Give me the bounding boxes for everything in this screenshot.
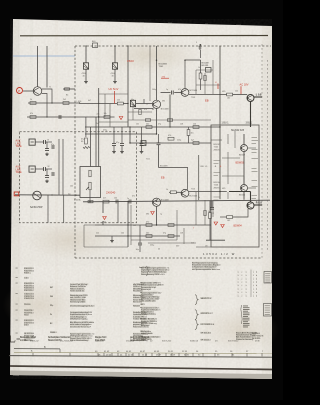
svg-text:1k5: 1k5 [117,100,120,102]
svg-text:L1 04+: L1 04+ [20,339,28,342]
svg-text:2k2: 2k2 [63,99,66,101]
legend col2 descriptions [70,283,88,285]
svg-text:Netzspannung 220V ±10%: Netzspannung 220V ±10% [141,273,165,276]
svg-text:2X0040: 2X0040 [106,190,116,194]
input jack lower [29,166,35,172]
ground C1 [85,80,87,82]
legend col3 descriptions [133,283,144,285]
bus junctions and parts [51,194,52,195]
svg-text:10k: 10k [136,124,139,126]
fold dark line [10,366,272,370]
svg-text:22 23: 22 23 [128,354,134,356]
legend bottom rows [20,336,35,338]
wire y117 mid [87,116,115,118]
pot element upper [89,170,91,177]
svg-text:+: + [215,165,217,169]
svg-text:Printed in Germany: Printed in Germany [236,338,253,341]
paper grain noise [10,19,272,379]
main signal bus wire [83,200,270,202]
svg-text:SP 101-104: SP 101-104 [201,333,212,335]
output box right text rows [252,136,258,139]
input box long verticals [58,139,60,195]
sheet top rule line [20,35,268,37]
svg-text:+: + [220,165,222,169]
emitter resistor lower [227,216,233,219]
svg-text:BC556B: BC556B [189,90,197,92]
plus minus measurement grid [237,271,240,273]
feedback resistor 4 [193,142,199,145]
feedback resistor 4k7 [146,126,152,129]
input box mid verticals [90,127,92,167]
svg-text:SP 111-114: SP 111-114 [201,340,212,342]
ground C2 [114,80,116,82]
svg-text:44 45: 44 45 [126,351,132,353]
upper output device T small [241,145,248,152]
svg-text:1512/04: 1512/04 [126,341,135,343]
record player input symbol P [17,88,23,94]
elbow to lower pre [159,168,188,190]
lower resistors [146,224,152,227]
svg-text:T101 B: T101 B [24,304,31,306]
svg-text:keramische Kond. in pF: keramische Kond. in pF [70,326,92,328]
svg-text:03 B: 03 B [255,341,260,343]
svg-text:DIN-Buchse 5-polig: DIN-Buchse 5-polig [70,318,87,320]
svg-text:Netzteil: Netzteil [133,305,140,308]
pot wiper inside [89,182,91,190]
mains connector symbol [199,44,201,50]
input wire to T102 [144,103,152,105]
svg-text:41 42: 41 42 [104,351,110,353]
below bus verticals [47,195,49,223]
svg-text:BD610: BD610 [239,195,246,197]
svg-text:am Spannungswähler beachten: am Spannungswähler beachten [192,268,220,271]
right edge connector box upper [264,272,272,284]
driver transistor T102 [152,100,160,108]
svg-text:BDW94: BDW94 [234,225,243,228]
resistor x188 upper mid [187,130,190,136]
svg-text:220p: 220p [177,140,181,142]
blue line to input [13,55,75,57]
svg-text:100: 100 [114,198,117,200]
svg-text:1k2: 1k2 [133,225,136,227]
lower output device T small [241,185,248,192]
legend margin ticks right col [140,266,142,269]
svg-text:BC546B: BC546B [160,165,168,167]
svg-text:BD609: BD609 [239,155,246,157]
feedback resistor 2 [193,126,199,129]
svg-text:1k: 1k [30,99,32,101]
svg-text:UC 5mV: UC 5mV [109,87,119,91]
red connector left end [14,192,19,196]
zigzag trim resistor [83,147,90,149]
svg-text:5017/1512: 5017/1512 [228,341,239,343]
svg-text:T103: T103 [191,97,195,99]
mid-left extra wires [99,104,128,128]
output box internal wires [211,131,256,199]
output box internal vertical wire [243,152,245,185]
legend col1 designator list [24,267,32,269]
svg-text:4µ7: 4µ7 [191,140,194,142]
svg-text:47n: 47n [51,144,54,146]
lower feedback wires [95,224,211,226]
svg-text:1k0: 1k0 [50,296,53,298]
input section dashed enclosure [20,132,137,223]
resistor upper mid [63,102,69,105]
lower cap 10u [139,225,141,243]
svg-text:4k7: 4k7 [88,100,91,102]
svg-text:T111: T111 [146,159,150,161]
svg-text:2N2955: 2N2955 [214,187,222,189]
legend brace col1 right [146,266,149,276]
svg-text:1k8: 1k8 [180,232,183,234]
svg-text:1N4001: 1N4001 [50,332,57,334]
extra junction dots [156,60,157,61]
caps cluster mid3 [141,127,143,143]
legend bottom right block [236,332,256,334]
svg-text:a: a [256,295,257,297]
red wire elbow [114,91,116,104]
svg-text:50 51: 50 51 [168,351,174,353]
svg-text:2x: 2x [50,314,52,316]
svg-text:4n7: 4n7 [103,198,106,200]
pin list text stack [243,305,248,308]
svg-text:48 49: 48 49 [154,351,160,353]
T1 wires [23,90,33,92]
svg-text:SU2042 K25: SU2042 K25 [231,130,245,132]
resistor v lower right [209,213,212,219]
svg-text:Sicherung 0,8A tr.: Sicherung 0,8A tr. [70,300,86,303]
resistor 1k5 [117,102,123,105]
bracket group exit [195,310,198,320]
svg-text:B4: B4 [66,95,68,97]
partition vertical wire x198 [198,155,200,200]
extra wiring mesh lower channel [84,192,213,247]
footer thin rule [14,352,272,353]
svg-text:1k: 1k [198,67,200,69]
bottom right bus area cap [211,201,213,208]
output stage solid enclosure [211,125,259,247]
svg-text:BD139: BD139 [202,65,209,67]
svg-text:L 10mA: L 10mA [74,198,81,201]
svg-text:13502 1/2 W: 13502 1/2 W [203,252,236,256]
svg-text:47k: 47k [30,113,33,115]
svg-text:1k: 1k [146,104,148,106]
resistor column x200 upper [200,50,202,58]
input transistor T1 [33,87,42,96]
svg-text:1n: 1n [127,198,129,200]
wire into pot [98,157,100,167]
extra small parts on mesh [139,109,141,114]
coupling caps lower channel input [35,168,43,170]
svg-text:24 25: 24 25 [142,354,148,356]
T102 emitter wire [134,108,153,110]
ground mid lower red [103,217,107,220]
page bottom shadow [10,371,272,380]
svg-text:470: 470 [168,135,171,137]
svg-text:240: 240 [146,232,149,234]
cap 40u mid [130,100,135,106]
svg-text:4k7: 4k7 [103,221,106,223]
footer long rule [9,356,272,358]
cap 158 [157,142,161,144]
svg-text:46 47: 46 47 [140,351,146,353]
svg-text:470: 470 [146,221,149,223]
svg-text:0R5: 0R5 [222,188,225,190]
svg-text:a: a [256,285,257,287]
driver transistor lower T112 [152,198,160,206]
svg-text:L62: L62 [227,220,230,222]
svg-text:sek. 2x18V 1,6A: sek. 2x18V 1,6A [141,300,156,303]
svg-text:Tiefen 2x10k lin.: Tiefen 2x10k lin. [70,290,85,292]
ground lower2 [111,239,113,241]
svg-text:C104,C114: C104,C114 [24,298,35,300]
svg-text:1k2: 1k2 [235,91,238,93]
svg-text:1k8: 1k8 [180,124,183,126]
rectifier symbol B40 [93,43,98,48]
feedback wires upper [85,126,220,128]
output box left text rows lower [214,159,221,162]
svg-text:1 BU 1: 1 BU 1 [222,122,230,124]
svg-text:T1: T1 [49,87,51,89]
coupling cap to T103 [161,92,171,94]
svg-text:0R5: 0R5 [222,91,225,93]
svg-text:a: a [256,282,257,284]
svg-text:100: 100 [121,232,124,234]
svg-text:1503+02: 1503+02 [30,341,39,343]
svg-text:5017+/02: 5017+/02 [162,341,172,343]
power supply caps rail [46,46,48,88]
footer ticks [32,353,34,356]
extra wiring mesh upper channel [99,46,220,120]
svg-text:a: a [256,272,257,274]
input jack upper [29,139,35,145]
resistor into T113 [169,191,170,193]
svg-text:BC556B: BC556B [189,195,197,197]
pre transistor lower T113 [181,189,189,197]
svg-text:EB: EB [205,99,209,103]
svg-text:47n: 47n [132,195,135,197]
svg-text:BC546B: BC546B [161,109,169,111]
svg-text:L 0.8: L 0.8 [256,93,262,96]
pre transistor T103 [181,89,189,97]
svg-text:L62: L62 [227,97,230,99]
resistor 10k on y117 [104,116,110,119]
svg-text:19 20: 19 20 [106,354,112,356]
svg-text:W: W [48,166,50,168]
red triangle lower right [214,222,218,225]
lower channel verticals [127,202,129,248]
svg-text:2N3055: 2N3055 [214,149,222,151]
svg-text:1k: 1k [198,197,200,199]
svg-text:Nr. 4-910: Nr. 4-910 [252,338,261,340]
emitter resistor upper 1k2 [227,93,233,96]
svg-text:390: 390 [146,214,149,216]
footer short rule B [14,348,60,350]
svg-text:5036+04: 5036+04 [95,341,104,343]
svg-text:GROUP EXIT: GROUP EXIT [201,313,214,315]
svg-text:10k: 10k [70,186,73,188]
wire y103 with parts [80,103,118,105]
resistor on y89 wire [65,88,70,90]
svg-text:a: a [256,278,257,280]
svg-text:BDW93: BDW93 [236,162,245,165]
trimmer hatched [141,141,146,146]
caps cluster mid1 [113,127,115,143]
svg-text:04+/1503+02: 04+/1503+02 [60,341,74,343]
svg-text:22k: 22k [97,114,100,116]
svg-text:R103 ...: R103 ... [24,273,31,275]
svg-text:a: a [256,275,257,277]
legend bottom right extra block [252,332,258,334]
svg-text:siehe Tabelle: siehe Tabelle [141,333,154,335]
svg-text:390: 390 [162,101,165,103]
output transistor lower T115 bold [247,202,254,209]
svg-text:1k0: 1k0 [193,123,196,125]
left edge bracket mark [11,336,21,343]
bias resistor R2 [30,116,36,119]
red gnd lower mid [151,212,155,215]
svg-text:1 BU 1.5: 1 BU 1.5 [200,166,209,168]
svg-text:30 31: 30 31 [184,354,190,356]
caps cluster mid2 [121,127,123,143]
svg-text:T113: T113 [191,189,195,191]
main amplifier dashed enclosure [75,46,271,258]
vertical x159 down [158,145,160,168]
feedback resistor 3 470 [168,137,174,140]
extra bracket rows below [201,332,210,334]
output transistor upper T105 bold [247,95,254,102]
bias wires left [28,102,80,104]
coupling caps upper channel input [35,141,43,143]
svg-text:TAPE: TAPE [16,145,22,148]
below box wire y240 [206,239,225,241]
svg-text:DP OVERRIDE: DP OVERRIDE [201,324,215,326]
svg-text:a: a [256,289,257,291]
legend right part numbers col [141,267,165,269]
svg-text:4k7: 4k7 [50,287,53,289]
filter capacitor C2 4700u [112,63,117,69]
svg-text:AC 18V: AC 18V [240,82,249,86]
svg-text:SA/SC-HDP: SA/SC-HDP [30,206,43,209]
right edge connector box lower [264,304,272,317]
cap on 117 wire [58,115,60,119]
svg-text:240: 240 [146,123,149,125]
T103 base feed [185,60,201,89]
main rail vertical x220 [219,46,221,199]
svg-text:T101: T101 [159,66,165,68]
svg-text:26 27: 26 27 [156,354,162,356]
svg-text:28 29: 28 29 [170,354,176,356]
svg-text:1k: 1k [166,189,168,191]
svg-text:40: 40 [158,249,160,251]
svg-text:TAPE: TAPE [16,171,22,174]
svg-text:5036 04: 5036 04 [190,341,199,343]
bracket valve trip [195,295,198,305]
volume pot box [80,167,101,198]
svg-text:beachten!: beachten! [141,324,150,327]
svg-text:VALVE TRIP: VALVE TRIP [201,297,213,300]
paper blotches [2,279,78,331]
svg-text:log: log [68,194,70,196]
turntable motor circle [33,191,42,200]
svg-text:Schutzschaltung: Schutzschaltung [141,313,156,316]
channel1 mid bias vertical [98,88,100,157]
svg-text:1503: 1503 [127,59,134,63]
svg-text:47k: 47k [178,89,181,91]
svg-text:P: P [18,89,20,93]
svg-text:5: 5 [196,42,197,44]
filter capacitor C1 4700u [83,63,88,69]
upper channel wires [156,46,158,100]
red ground triangle mid [119,117,123,120]
main signal bus wire upper left [15,194,80,196]
svg-text:R 0.8: R 0.8 [256,201,263,204]
svg-text:47k: 47k [144,109,147,111]
svg-text:22k: 22k [96,232,99,234]
svg-text:a: a [256,292,257,294]
svg-text:Drucktastenaggregat 4-fach: Drucktastenaggregat 4-fach [70,305,95,308]
bracket dp override [195,320,198,330]
svg-text:47p: 47p [158,124,161,126]
svg-text:Elkos in µF: Elkos in µF [141,289,152,291]
svg-text:3 BL 1: 3 BL 1 [246,122,253,124]
legend col1 margin ticks [16,267,18,270]
svg-text:2k2: 2k2 [96,123,99,125]
svg-text:EB: EB [161,176,165,180]
red mark UL [217,84,219,90]
resistors on y120 row [145,119,150,121]
svg-text:47p: 47p [163,232,166,234]
collector wire lower [189,191,227,193]
svg-text:52 53: 52 53 [182,351,188,353]
svg-text:1k5: 1k5 [191,133,194,135]
svg-text:R107,R117: R107,R117 [24,290,35,292]
legend col1b values [50,286,52,288]
bias resistor R1 [30,102,36,105]
scan streak shading [13,20,272,376]
svg-text:B40: B40 [92,41,95,43]
collector wire upper to out [189,94,227,96]
